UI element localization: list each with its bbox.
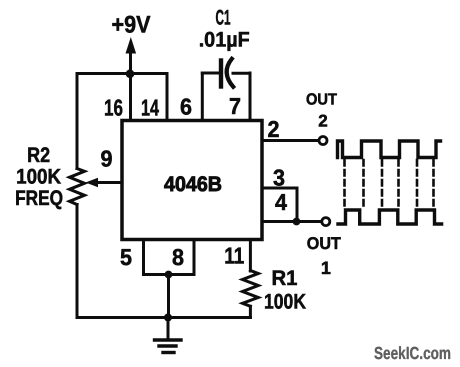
wire cap right lead	[233, 72, 250, 75]
svg-text:8: 8	[172, 244, 184, 270]
node junction pins 3-4	[293, 218, 301, 226]
node ground junction	[164, 314, 172, 322]
svg-text:4: 4	[275, 189, 287, 215]
svg-text:3: 3	[273, 165, 285, 191]
node supply junction	[126, 70, 135, 79]
wire pin 7 up	[249, 73, 252, 122]
capacitor C1	[219, 61, 223, 87]
wire to ground rail	[167, 275, 170, 318]
wire pin 5 down	[142, 240, 145, 275]
svg-text:6: 6	[180, 94, 192, 120]
wire pin 11 down	[249, 240, 252, 272]
wire pins 5-8 tie	[144, 273, 195, 276]
svg-text:FREQ: FREQ	[15, 187, 63, 210]
svg-text:5: 5	[120, 244, 132, 270]
svg-text:100K: 100K	[264, 291, 306, 314]
resistor R1	[243, 271, 259, 307]
waveform OUT1 trace	[338, 210, 442, 224]
svg-text:9: 9	[101, 146, 113, 172]
wire cap left lead	[202, 72, 219, 75]
waveform phase dashed lines	[345, 160, 434, 208]
svg-text:14: 14	[141, 95, 159, 121]
wire pins 3-4 tie	[296, 188, 299, 222]
node OUT 1 terminal	[322, 218, 330, 226]
svg-text:+9V: +9V	[112, 12, 151, 39]
svg-text:100K: 100K	[16, 166, 61, 189]
wire pin 14 to rail	[166, 74, 169, 123]
wire +9V rail	[77, 72, 167, 75]
wire bottom rail	[77, 316, 250, 319]
wire pin 9 wiper	[97, 181, 122, 184]
wire left rail upper (R2 top lead)	[76, 74, 79, 169]
wire pin 6 up	[201, 73, 204, 122]
ground	[167, 318, 170, 340]
wire pin 8 down	[193, 240, 196, 275]
svg-text:R2: R2	[27, 144, 50, 167]
svg-text:R1: R1	[272, 267, 298, 290]
svg-text:7: 7	[229, 93, 241, 119]
wire R1 bottom lead	[249, 306, 252, 317]
svg-text:11: 11	[224, 243, 244, 269]
svg-text:SeekIC.com: SeekIC.com	[374, 343, 451, 363]
svg-text:.01µF: .01µF	[199, 29, 250, 52]
node junction pins 5-8	[165, 271, 173, 279]
svg-text:C1: C1	[216, 7, 231, 30]
IC U1 4046B body	[122, 121, 262, 240]
svg-text:OUT: OUT	[306, 92, 337, 109]
wire pin 2 out	[262, 139, 319, 142]
svg-text:1: 1	[321, 258, 331, 278]
wire left rail lower	[76, 205, 79, 318]
svg-text:2: 2	[318, 112, 327, 131]
wire pin 4 out	[262, 220, 320, 223]
wire pin 3 out	[262, 187, 297, 190]
svg-text:OUT: OUT	[307, 234, 342, 253]
svg-text:2: 2	[268, 116, 280, 142]
waveform OUT2 trace	[338, 141, 441, 158]
resistor R2 (potentiometer)	[70, 169, 85, 205]
svg-text:16: 16	[104, 95, 123, 121]
wire pin 16 to rail	[129, 74, 132, 123]
node OUT 2 terminal	[319, 137, 327, 145]
svg-text:4046B: 4046B	[164, 173, 222, 196]
